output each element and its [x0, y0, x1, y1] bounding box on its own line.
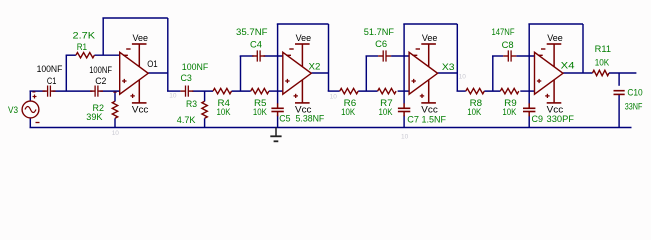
wire: X3 output [438, 72, 458, 74]
wire: main line R9 to X4 + input [520, 90, 534, 92]
wire: C7 bottom lead to ground rail [403, 116, 405, 128]
svg-text:10: 10 [112, 130, 120, 137]
wire: X4 output [563, 72, 593, 74]
capacitor C3 [185, 86, 187, 97]
svg-text:R1: R1 [77, 42, 87, 52]
svg-text:10: 10 [401, 134, 409, 141]
capacitor C9 [523, 107, 535, 109]
wire: X2 output [311, 72, 328, 74]
svg-text:10: 10 [459, 74, 467, 81]
wire: ground rail along bottom [30, 127, 632, 129]
wire: C10 top lead [618, 73, 620, 86]
wire: O1 output riser rail to main [167, 18, 169, 91]
wire: V3 bottom lead [29, 118, 31, 128]
svg-text:O1: O1 [147, 59, 158, 69]
wire: R3 top lead [204, 91, 206, 101]
wire: main line R6 to R7 (node C) [358, 90, 377, 92]
svg-text:2.7K: 2.7K [73, 31, 96, 41]
svg-text:C6: C6 [375, 39, 387, 49]
svg-text:39K: 39K [86, 112, 102, 122]
wire: X3 left riser rail down to C7 [403, 24, 405, 104]
ground [270, 128, 281, 142]
capacitor C8 [507, 50, 509, 61]
svg-text:Vee: Vee [133, 33, 149, 43]
op-amp X2 [283, 44, 312, 103]
wire: O1 output [148, 72, 168, 74]
wire: R1 feedback line right to O1 - input [94, 54, 119, 56]
capacitor C10 [614, 91, 625, 95]
svg-text:V3: V3 [8, 105, 18, 115]
svg-text:10K: 10K [467, 107, 481, 117]
svg-text:100NF: 100NF [182, 62, 209, 72]
svg-text:330PF: 330PF [547, 114, 575, 124]
wire: main line C1 to C2 (node A) [53, 90, 93, 92]
capacitor C1 [47, 86, 49, 97]
resistor R6 [340, 88, 359, 93]
wire: main line O1 to C3 [167, 90, 180, 92]
svg-text:10: 10 [169, 93, 177, 100]
wire: X4 left riser rail down to C9 [528, 24, 530, 104]
resistor R9 [500, 88, 519, 93]
wire: X4 output riser to rail [582, 24, 584, 73]
wire: C10 bottom lead to ground rail [618, 95, 620, 128]
wire: main line R5 to X2 + input [269, 90, 283, 92]
wire: node B riser to C4 [240, 56, 242, 91]
wire: stage3 top rail [403, 23, 457, 25]
wire: main line R8 to R9 (node D) [484, 90, 500, 92]
wire: R3 bottom lead [204, 118, 206, 127]
wire: main line R4 to R5 (node B) [232, 90, 251, 92]
capacitor C2 [94, 86, 96, 97]
svg-text:C5: C5 [279, 114, 290, 124]
capacitor C5 [271, 107, 283, 109]
wire: C6 left lead [366, 55, 379, 57]
wire: stage4 top rail [528, 23, 583, 25]
capacitor C6 [382, 50, 384, 61]
wire: X2 output riser rail to main [328, 24, 330, 91]
svg-text:10K: 10K [253, 107, 267, 117]
wire: riser R1 junction to top rail [102, 18, 104, 55]
node: junction tick at V3 top [32, 91, 35, 93]
svg-text:C2: C2 [95, 76, 106, 86]
svg-text:100NF: 100NF [37, 64, 63, 74]
svg-text:X2: X2 [309, 62, 321, 72]
svg-text:Vee: Vee [422, 33, 438, 43]
resistor R8 [466, 88, 485, 93]
svg-text:C1: C1 [47, 76, 57, 86]
wire: R1 feedback line left [66, 54, 76, 56]
resistor R5 [251, 88, 269, 93]
wire: C6 right lead to X3 - input [391, 55, 409, 57]
svg-text:5.38NF: 5.38NF [296, 114, 325, 124]
wire: C5 bottom lead to ground rail [277, 116, 279, 128]
svg-text:100NF: 100NF [89, 65, 112, 75]
svg-text:C7: C7 [407, 114, 419, 124]
svg-text:33NF: 33NF [625, 102, 643, 112]
resistor R2 [112, 101, 117, 118]
wire: C9 bottom lead to ground rail [528, 116, 530, 128]
node: junction tick at R2 top [113, 91, 116, 93]
svg-text:X4: X4 [561, 60, 575, 70]
svg-text:C3: C3 [181, 73, 192, 83]
wire: R2 top lead [114, 91, 116, 101]
wire: main line X2 to R6 [328, 90, 340, 92]
svg-text:10K: 10K [341, 107, 355, 117]
svg-text:Vee: Vee [547, 33, 563, 43]
svg-text:R11: R11 [595, 44, 611, 54]
resistor R11 [593, 70, 610, 75]
wire: node D riser to C8 [492, 56, 494, 91]
svg-text:1.5NF: 1.5NF [422, 114, 447, 124]
wire: R2 bottom lead [114, 118, 116, 127]
op-amp X4 [535, 44, 564, 103]
svg-text:147NF: 147NF [492, 27, 515, 37]
svg-text:10: 10 [330, 93, 338, 100]
svg-text:X3: X3 [442, 62, 455, 72]
svg-text:C10: C10 [627, 88, 642, 98]
resistor R7 [378, 88, 397, 93]
svg-text:10K: 10K [502, 107, 516, 117]
wire: stage1 top rail [102, 17, 167, 19]
wire: C4 left lead [240, 55, 254, 57]
svg-text:R3: R3 [186, 99, 197, 109]
wire: node A riser to R1 [65, 55, 67, 91]
wire: main line X3 to R8 [457, 90, 466, 92]
wire: R11 to output stub [609, 72, 636, 74]
resistor R4 [213, 88, 231, 93]
svg-text:Vee: Vee [296, 33, 312, 43]
resistor R1 [76, 53, 95, 58]
svg-text:10K: 10K [595, 58, 610, 68]
svg-text:Vcc: Vcc [421, 104, 438, 114]
op-amp O1 [120, 44, 149, 103]
wire: main line C3 to R4 (node with R3) [192, 90, 213, 92]
svg-text:51.7NF: 51.7NF [364, 27, 395, 37]
svg-text:10K: 10K [379, 107, 393, 117]
resistor R3 [202, 101, 207, 118]
wire: X2 left riser rail down to C5 [277, 24, 279, 104]
source V3 [22, 95, 39, 123]
svg-text:Vcc: Vcc [547, 104, 564, 114]
wire: main line R7 to X3 + input [398, 90, 410, 92]
svg-text:Vcc: Vcc [295, 104, 312, 114]
svg-text:35.7NF: 35.7NF [236, 27, 268, 37]
svg-text:10K: 10K [217, 107, 231, 117]
capacitor C7 [398, 107, 410, 109]
wire: C8 left lead [492, 55, 503, 57]
wire: stage2 top rail [277, 23, 329, 25]
capacitor C4 [256, 50, 258, 61]
wire: C4 right lead to X2 - input [264, 55, 283, 57]
svg-text:C4: C4 [250, 40, 262, 50]
svg-text:C9: C9 [532, 114, 544, 124]
svg-text:4.7K: 4.7K [177, 115, 196, 125]
wire: node C riser to C6 [365, 56, 367, 91]
svg-text:Vcc: Vcc [132, 104, 149, 114]
wire: main line V3 to C1 [30, 90, 46, 92]
wire: main line C2 to O1 + input [100, 90, 120, 92]
wire: X3 output riser rail to main [456, 24, 458, 91]
wire: V3 top lead to main line [29, 91, 31, 101]
wire: C8 right lead to X4 - input [516, 55, 534, 57]
op-amp X3 [409, 44, 438, 103]
svg-text:C8: C8 [502, 40, 514, 50]
